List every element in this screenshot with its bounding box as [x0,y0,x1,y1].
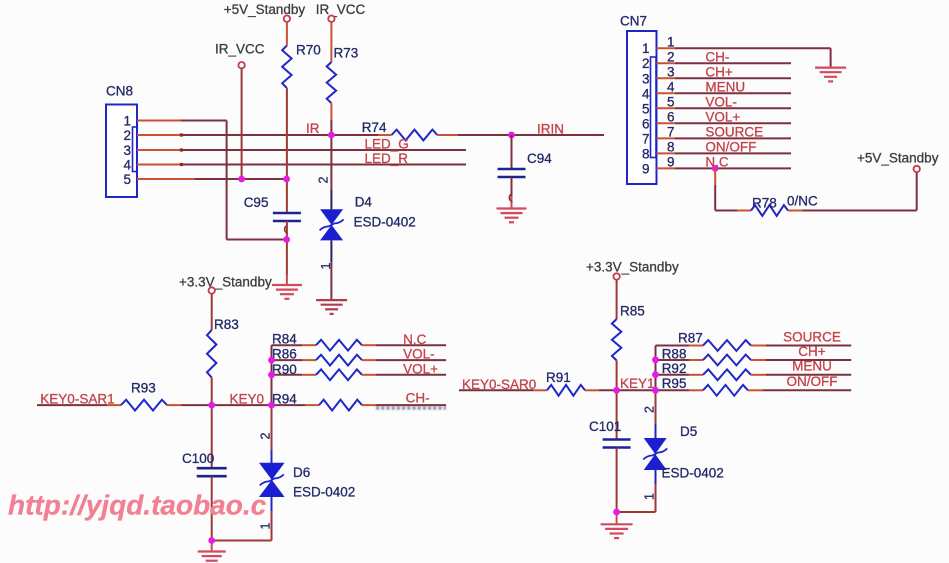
svg-text:VOL-: VOL- [403,347,435,362]
svg-text:IRIN: IRIN [537,122,564,137]
svg-text:R85: R85 [620,304,645,319]
svg-text:VOL-: VOL- [705,95,737,110]
svg-text:CH+: CH+ [705,65,732,80]
svg-text:R78: R78 [752,196,777,211]
svg-text:2: 2 [316,176,330,183]
svg-text:ON/OFF: ON/OFF [705,140,756,155]
svg-text:3: 3 [123,143,131,158]
svg-text:VOL+: VOL+ [403,362,438,377]
svg-text:4: 4 [123,157,131,172]
svg-text:3: 3 [667,65,675,80]
svg-text:ESD-0402: ESD-0402 [354,215,416,230]
svg-text:R73: R73 [334,46,359,61]
svg-text:+3.3V_Standby: +3.3V_Standby [586,260,679,275]
svg-text:D6: D6 [293,465,310,480]
svg-text:CN8: CN8 [106,84,133,99]
svg-text:C100: C100 [182,451,214,466]
svg-text:5: 5 [123,172,131,187]
svg-text:CN7: CN7 [620,14,647,29]
svg-text:+5V_Standby: +5V_Standby [224,2,306,17]
svg-text:IR_VCC: IR_VCC [316,2,366,17]
svg-text:1: 1 [667,34,675,49]
svg-text:ON/OFF: ON/OFF [787,374,838,389]
svg-text:C101: C101 [589,419,621,434]
svg-text:KEY0-SAR1: KEY0-SAR1 [40,391,114,406]
svg-text:VOL+: VOL+ [705,110,740,125]
svg-text:8: 8 [667,140,675,155]
svg-text:4: 4 [667,80,675,95]
svg-text:C94: C94 [527,151,552,166]
svg-text:1: 1 [642,41,650,56]
svg-text:N.C: N.C [403,332,427,347]
svg-text:R84: R84 [272,332,297,347]
svg-text:SOURCE: SOURCE [705,125,763,140]
svg-text:3: 3 [642,71,650,86]
svg-text:C95: C95 [244,195,269,210]
svg-text:LED_R: LED_R [365,151,409,166]
svg-text:http://yjqd.taobao.c: http://yjqd.taobao.c [8,490,267,521]
svg-text:7: 7 [642,131,650,146]
svg-text:R93: R93 [131,381,156,396]
svg-text:R83: R83 [214,317,239,332]
svg-text:R90: R90 [272,362,297,377]
svg-text:+3.3V_Standby: +3.3V_Standby [179,274,272,289]
svg-text:1: 1 [642,493,656,500]
svg-text:5: 5 [667,95,675,110]
svg-text:2: 2 [642,56,650,71]
svg-text:7: 7 [667,125,675,140]
svg-text:IR: IR [306,121,320,136]
svg-text:R95: R95 [662,376,687,391]
svg-text:1: 1 [258,522,272,529]
svg-text:9: 9 [642,161,650,176]
svg-text:MENU: MENU [705,80,745,95]
svg-text:ESD-0402: ESD-0402 [662,466,724,481]
svg-text:CH-: CH- [705,49,729,64]
svg-text:R92: R92 [662,361,687,376]
svg-text:LED_G: LED_G [365,137,409,152]
svg-text:8: 8 [642,146,650,161]
svg-text:KEY0-SAR0: KEY0-SAR0 [462,377,536,392]
svg-text:6: 6 [642,116,650,131]
svg-text:2: 2 [667,49,675,64]
svg-text:6: 6 [667,110,675,125]
svg-text:R91: R91 [546,370,571,385]
svg-text:4: 4 [642,86,650,101]
svg-text:R74: R74 [362,120,387,135]
svg-text:ESD-0402: ESD-0402 [293,485,355,500]
svg-text:KEY1: KEY1 [620,376,655,391]
svg-text:CH+: CH+ [798,344,825,359]
svg-text:R86: R86 [272,347,297,362]
svg-text:R88: R88 [662,347,687,362]
svg-text:0/NC: 0/NC [787,194,818,209]
svg-text:IR_VCC: IR_VCC [215,42,265,57]
svg-text:R94: R94 [272,391,297,406]
svg-text:R70: R70 [296,43,321,58]
svg-text:+5V_Standby: +5V_Standby [857,151,939,166]
svg-text:1: 1 [319,262,333,269]
svg-text:2: 2 [642,406,656,413]
svg-text:D4: D4 [355,195,373,210]
svg-text:2: 2 [123,128,131,143]
svg-text:MENU: MENU [792,359,832,374]
svg-text:9: 9 [667,155,675,170]
svg-text:CH-: CH- [406,391,430,406]
svg-text:2: 2 [258,432,272,439]
svg-text:SOURCE: SOURCE [783,329,841,344]
svg-text:5: 5 [642,101,650,116]
svg-text:KEY0: KEY0 [230,391,265,406]
svg-text:1: 1 [123,113,131,128]
svg-text:D5: D5 [680,424,697,439]
svg-text:R87: R87 [678,331,703,346]
